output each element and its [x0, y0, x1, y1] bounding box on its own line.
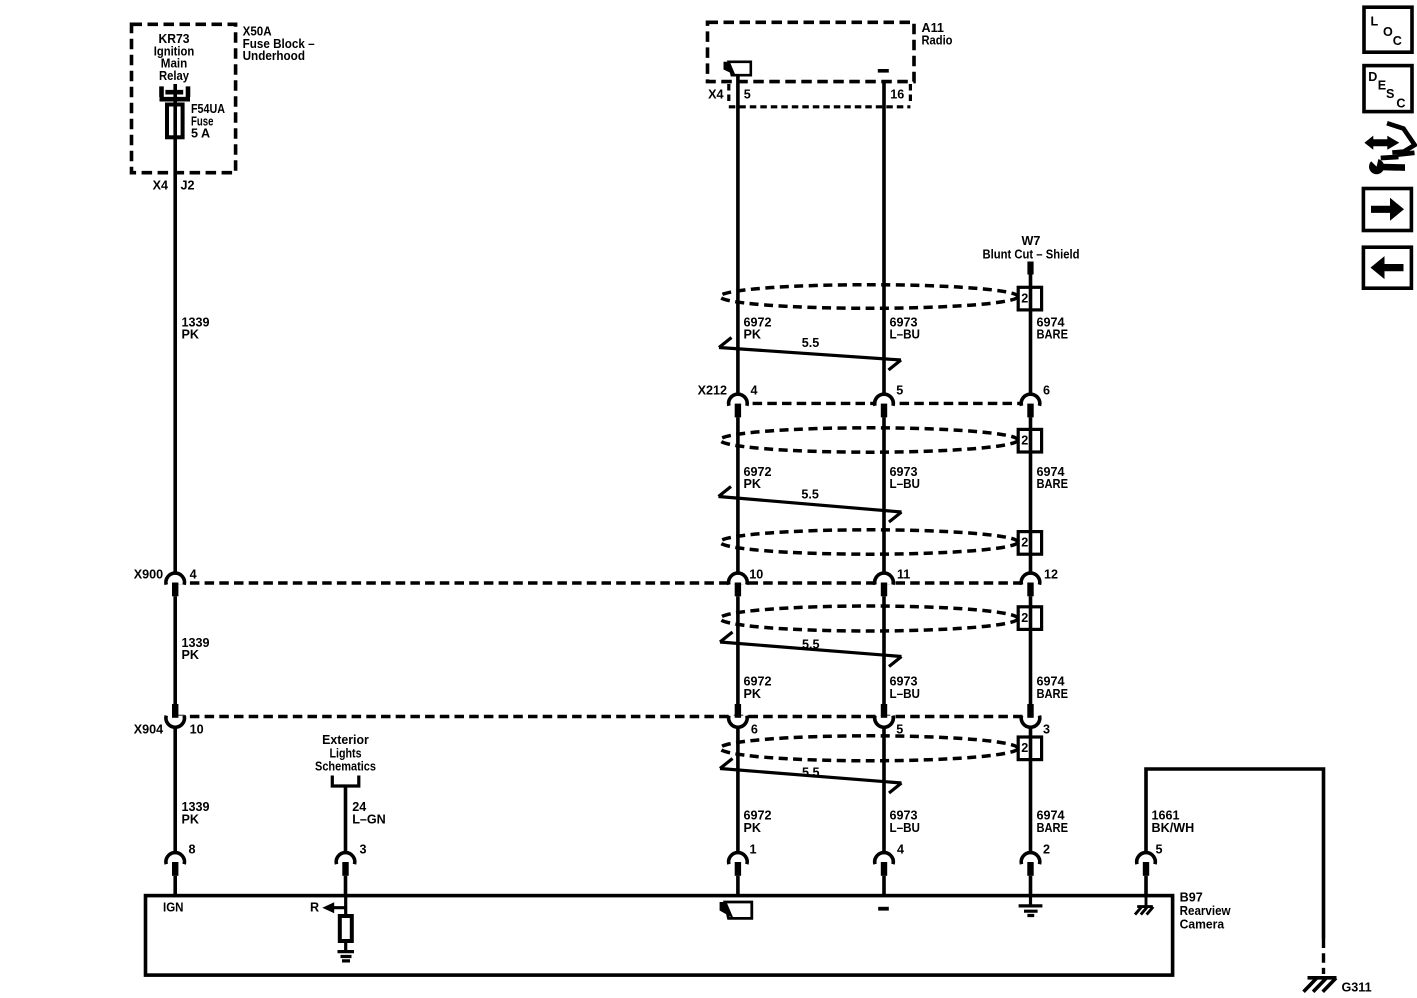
svg-text:Radio: Radio	[922, 33, 953, 47]
radio connector X4 dashed outline	[727, 84, 730, 103]
svg-text:5.5: 5.5	[802, 638, 820, 652]
svg-text:1: 1	[750, 843, 757, 857]
previous page arrow icon	[1363, 247, 1411, 288]
twisted-pair ellipse 1	[720, 285, 1018, 309]
svg-text:L–GN: L–GN	[352, 813, 386, 827]
ground under resistor	[338, 941, 355, 961]
shield box 1	[1018, 287, 1041, 310]
svg-text:Blunt Cut – Shield: Blunt Cut – Shield	[983, 248, 1080, 262]
svg-text:4: 4	[190, 568, 197, 582]
svg-text:X4: X4	[153, 179, 168, 193]
svg-text:5: 5	[896, 723, 903, 737]
svg-text:5.5: 5.5	[801, 488, 819, 502]
svg-text:Exterior: Exterior	[322, 733, 369, 747]
W7 blunt cut stub	[1027, 262, 1033, 275]
svg-text:PK: PK	[182, 328, 200, 342]
svg-text:2: 2	[1021, 433, 1028, 447]
svg-text:PK: PK	[182, 813, 200, 827]
DESC icon box	[1364, 66, 1412, 112]
svg-text:11: 11	[897, 568, 910, 582]
svg-text:2: 2	[1043, 843, 1050, 857]
svg-text:PK: PK	[182, 648, 200, 662]
svg-text:6: 6	[1043, 384, 1050, 398]
svg-text:4: 4	[897, 843, 904, 857]
svg-text:L: L	[1371, 15, 1379, 29]
ground symbol in B97	[1019, 896, 1043, 916]
svg-text:B97: B97	[1180, 891, 1203, 905]
svg-text:X4: X4	[708, 88, 723, 102]
shield box 2	[1018, 429, 1041, 452]
minus pin in radio	[878, 69, 889, 73]
twisted-pair ellipse 5	[720, 736, 1018, 761]
svg-text:6: 6	[751, 723, 758, 737]
shield box 3	[1018, 532, 1041, 555]
radio A11 dashed box	[708, 22, 915, 81]
svg-text:3: 3	[1043, 723, 1050, 737]
svg-text:Rearview: Rearview	[1180, 904, 1231, 918]
wire 24 L-GN	[344, 788, 348, 896]
svg-text:L–BU: L–BU	[890, 477, 921, 491]
wire 1661 dashed segment to ground	[1322, 939, 1325, 975]
R reverse arrow in B97	[322, 902, 334, 913]
twisted-pair ellipse 4	[720, 606, 1018, 631]
fuse F54UA symbol	[167, 105, 183, 138]
exterior lights schematics bracket	[332, 776, 359, 787]
svg-text:PK: PK	[744, 328, 762, 342]
twisted-pair ellipse 2	[720, 428, 1018, 452]
svg-text:5: 5	[744, 88, 751, 102]
connector X212 dashed line	[738, 402, 1031, 405]
wire 6972 PK	[736, 75, 740, 895]
wire 6973 L-BU	[882, 82, 886, 896]
svg-text:5.5: 5.5	[802, 336, 820, 350]
svg-text:5: 5	[896, 384, 903, 398]
twisted-pair ellipse 3	[720, 530, 1018, 554]
svg-text:X904: X904	[134, 723, 163, 737]
svg-text:2: 2	[1021, 291, 1028, 305]
svg-text:Underhood: Underhood	[243, 49, 305, 63]
svg-text:Camera: Camera	[1180, 918, 1225, 932]
svg-text:5 A: 5 A	[191, 127, 210, 141]
svg-text:5.5: 5.5	[802, 766, 820, 780]
harness repair icon (wrench with arrows)	[1364, 123, 1414, 174]
svg-text:D: D	[1368, 70, 1377, 84]
camera icon in radio	[729, 62, 751, 75]
svg-text:X900: X900	[134, 568, 163, 582]
connector X904 terminals (flipped)	[166, 716, 185, 728]
svg-text:X212: X212	[698, 384, 727, 398]
svg-text:10: 10	[190, 723, 204, 737]
svg-text:PK: PK	[744, 477, 762, 491]
svg-text:12: 12	[1044, 568, 1058, 582]
relay KR73 contact symbol	[160, 86, 191, 99]
twist note 5.5 line 3	[720, 632, 902, 667]
wire 6974 BARE shield drain	[1029, 288, 1033, 896]
svg-text:Lights: Lights	[330, 746, 362, 760]
svg-text:8: 8	[189, 843, 196, 857]
svg-text:S: S	[1386, 87, 1394, 101]
svg-text:5: 5	[1156, 843, 1163, 857]
svg-text:C: C	[1396, 96, 1405, 110]
svg-text:L–BU: L–BU	[890, 821, 921, 835]
next page arrow icon	[1363, 189, 1411, 231]
twist note 5.5 line 2	[719, 487, 902, 523]
B97 rearview camera box	[146, 896, 1173, 976]
svg-text:L–BU: L–BU	[890, 687, 921, 701]
svg-text:3: 3	[360, 843, 367, 857]
svg-text:2: 2	[1021, 536, 1028, 550]
svg-text:10: 10	[749, 568, 763, 582]
svg-text:G311: G311	[1342, 981, 1372, 995]
wire 1339 PK left column	[173, 84, 177, 896]
resistor in B97	[340, 916, 352, 941]
svg-text:J2: J2	[181, 179, 195, 193]
camera icon in B97	[725, 902, 752, 918]
connector X904 dashed line	[175, 715, 1030, 718]
svg-text:E: E	[1378, 79, 1386, 93]
svg-text:O: O	[1383, 25, 1393, 39]
svg-text:L–BU: L–BU	[890, 328, 921, 342]
chassis ground symbol in B97	[1135, 896, 1153, 915]
B97 pigtail terminals	[166, 853, 185, 865]
svg-text:2: 2	[1021, 611, 1028, 625]
twist note 5.5 line 1	[719, 338, 901, 371]
svg-text:16: 16	[890, 88, 904, 102]
connector X900 terminals	[166, 573, 185, 585]
svg-text:Schematics: Schematics	[315, 760, 376, 774]
fuse block X50A dashed box	[132, 24, 236, 172]
LOC icon box	[1364, 7, 1412, 52]
svg-text:PK: PK	[744, 687, 762, 701]
svg-text:BK/WH: BK/WH	[1152, 821, 1195, 835]
shield box 5	[1018, 737, 1041, 760]
svg-text:4: 4	[751, 384, 758, 398]
shield box 4	[1018, 607, 1041, 630]
svg-text:BARE: BARE	[1037, 328, 1069, 342]
svg-text:PK: PK	[744, 821, 762, 835]
minus pin in B97	[878, 907, 889, 911]
svg-text:Relay: Relay	[159, 69, 189, 83]
svg-text:BARE: BARE	[1037, 687, 1069, 701]
svg-text:BARE: BARE	[1037, 821, 1069, 835]
svg-text:W7: W7	[1022, 234, 1041, 248]
svg-text:C: C	[1393, 34, 1402, 48]
svg-text:BARE: BARE	[1037, 477, 1069, 491]
svg-text:R: R	[310, 901, 319, 915]
connector X900 dashed line	[175, 581, 1030, 584]
connector X212 terminals	[729, 394, 748, 406]
twist note 5.5 line 4	[720, 759, 902, 794]
ground G311 symbol	[1304, 978, 1337, 992]
svg-text:IGN: IGN	[163, 901, 184, 915]
svg-text:2: 2	[1021, 741, 1028, 755]
wire 1661 BK/WH	[1146, 769, 1324, 939]
